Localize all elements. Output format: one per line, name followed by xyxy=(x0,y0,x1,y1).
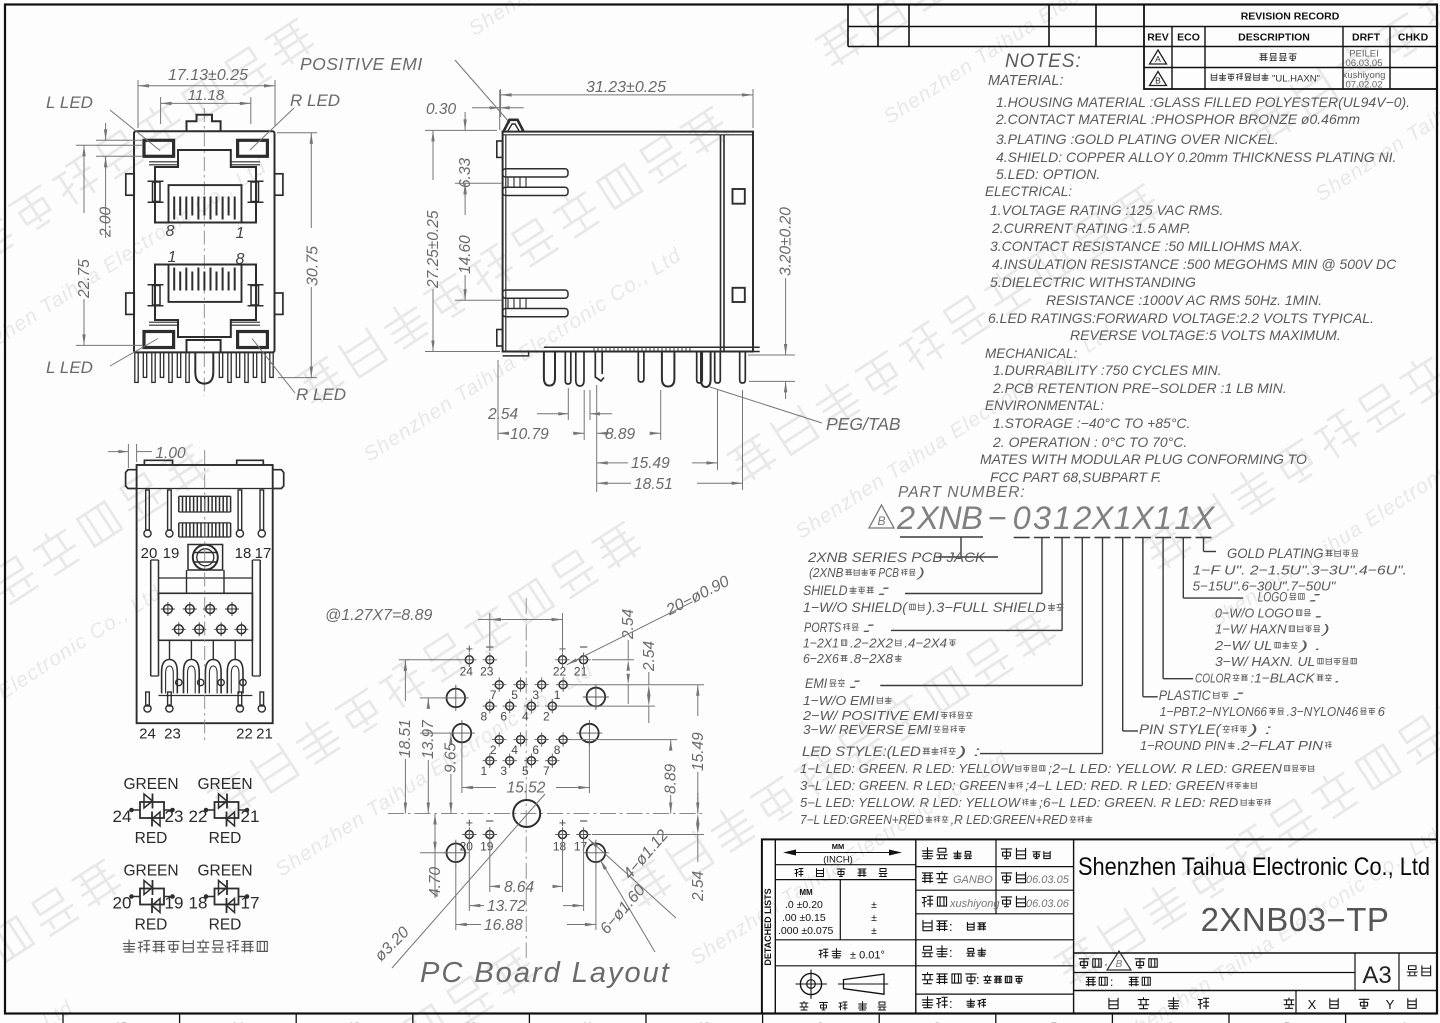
svg-text:PEG/TAB: PEG/TAB xyxy=(826,414,901,434)
svg-text:3−W/ HAXN. UL: 3−W/ HAXN. UL xyxy=(1215,654,1315,669)
svg-text::: : xyxy=(976,972,980,987)
svg-text:8: 8 xyxy=(480,710,487,724)
svg-text:2.54: 2.54 xyxy=(620,608,637,640)
dim 27.25±0.25 xyxy=(425,129,497,131)
svg-text:X: X xyxy=(1192,500,1216,536)
svg-text:DETACHED LISTS: DETACHED LISTS xyxy=(763,888,773,965)
svg-text:B: B xyxy=(1155,76,1161,86)
svg-text:REV: REV xyxy=(1147,32,1169,44)
svg-text:19: 19 xyxy=(165,894,184,913)
svg-text:3.CONTACT RESISTANCE :50 MI: 3.CONTACT RESISTANCE :50 MILLIOHMS MAX. xyxy=(990,238,1303,254)
svg-text:4.INSULATION RESISTANCE :500: 4.INSULATION RESISTANCE :500 MEGOHMS MIN… xyxy=(992,256,1397,272)
legs and pegs xyxy=(544,352,555,386)
svg-text:3: 3 xyxy=(1033,500,1051,536)
dim 8.89 side xyxy=(596,385,598,492)
R LED window top-right xyxy=(238,140,268,156)
svg-text:DRFT: DRFT xyxy=(1352,32,1381,44)
svg-text::: : xyxy=(949,996,953,1011)
svg-text:PIN STYLE(: PIN STYLE( xyxy=(1139,722,1222,737)
layout centerlines xyxy=(525,598,527,958)
svg-text:11.18: 11.18 xyxy=(188,87,225,104)
svg-text:N: N xyxy=(938,500,962,536)
svg-text:18: 18 xyxy=(189,894,208,913)
LED symbol left xyxy=(140,802,164,818)
svg-text:0.30: 0.30 xyxy=(426,101,457,118)
svg-text:4: 4 xyxy=(511,743,518,757)
svg-text::: : xyxy=(861,620,877,635)
svg-text:FCC PART 68,SUBPART F.: FCC PART 68,SUBPART F. xyxy=(990,469,1161,485)
svg-text:2. OPERATION : 0°C TO 70°: 2. OPERATION : 0°C TO 70°C. xyxy=(992,434,1187,450)
dim 8.64 xyxy=(489,841,491,892)
svg-text:21: 21 xyxy=(574,665,588,679)
svg-text:10.79: 10.79 xyxy=(510,426,549,443)
svg-text:ECO: ECO xyxy=(1177,32,1200,44)
bottom view top tabs xyxy=(144,460,172,465)
svg-text:Y: Y xyxy=(1386,997,1395,1012)
svg-text:15.49: 15.49 xyxy=(631,455,670,472)
chinese caption xyxy=(123,940,134,952)
svg-text:13.97: 13.97 xyxy=(420,719,437,759)
svg-text:2.CURRENT RATING :1.5 AMP.: 2.CURRENT RATING :1.5 AMP. xyxy=(991,220,1191,236)
upper port latch slots xyxy=(153,182,161,202)
svg-text:A3: A3 xyxy=(1362,962,1391,989)
svg-text:8.64: 8.64 xyxy=(504,879,535,896)
dim 18.51 side xyxy=(742,390,744,490)
8 round contacts xyxy=(164,605,173,614)
svg-text:9.65: 9.65 xyxy=(443,742,460,773)
svg-text:19: 19 xyxy=(163,545,180,562)
revision row B xyxy=(1150,72,1167,86)
svg-text:2XNB SERIES PCB JACK: 2XNB SERIES PCB JACK xyxy=(807,549,986,565)
svg-text:1.00: 1.00 xyxy=(155,445,186,462)
svg-text:.8−2X8: .8−2X8 xyxy=(850,651,894,666)
svg-text:1: 1 xyxy=(1154,500,1172,536)
mounting holes ø1.60 xyxy=(447,689,466,708)
svg-text:"UL.HAXN": "UL.HAXN" xyxy=(1272,74,1320,85)
svg-text:17.13±0.25: 17.13±0.25 xyxy=(168,67,248,84)
svg-text:X: X xyxy=(916,500,940,536)
svg-text:24: 24 xyxy=(113,807,132,826)
lower port contact block xyxy=(169,265,242,302)
dim 30.75 xyxy=(277,132,317,134)
svg-text:6.LED RATINGS:FORWARD VOLTAG: 6.LED RATINGS:FORWARD VOLTAGE:2.2 VOLTS … xyxy=(988,310,1374,326)
svg-text:1: 1 xyxy=(236,225,245,242)
dim 4.70 layout xyxy=(420,852,447,854)
svg-text:A: A xyxy=(1155,54,1161,64)
svg-text:;2−L LED: YELLOW. R LED: G: ;2−L LED: YELLOW. R LED: GREEN xyxy=(1048,762,1283,776)
svg-text::: : xyxy=(949,919,953,934)
front view bottom tab xyxy=(187,340,221,352)
svg-text:.4−2X4: .4−2X4 xyxy=(904,636,947,651)
svg-text:8.89: 8.89 xyxy=(663,763,680,794)
svg-text:17: 17 xyxy=(255,545,272,562)
svg-text:PC Board Layout: PC Board Layout xyxy=(420,957,671,989)
svg-text:PLASTIC: PLASTIC xyxy=(1159,688,1211,703)
svg-text:MATES WITH MODULAR PLUG CO: MATES WITH MODULAR PLUG CONFORMING TO xyxy=(980,451,1307,467)
svg-text:,R LED:GREEN+RED: ,R LED:GREEN+RED xyxy=(951,813,1068,827)
svg-text:6: 6 xyxy=(1378,704,1386,719)
svg-text:22: 22 xyxy=(189,807,208,826)
svg-text:5: 5 xyxy=(522,764,529,778)
svg-text::: : xyxy=(847,676,863,691)
svg-text:30.75: 30.75 xyxy=(305,246,322,286)
revision triangle B xyxy=(869,505,894,528)
svg-text:SHIELD: SHIELD xyxy=(803,583,848,598)
svg-text:16.88: 16.88 xyxy=(484,917,523,934)
svg-text:−: − xyxy=(988,500,1007,536)
svg-text:2.00: 2.00 xyxy=(98,206,115,238)
LED holes top: 24 23 22 21 xyxy=(465,656,473,664)
svg-text:1.VOLTAGE RATING :125 VAC: 1.VOLTAGE RATING :125 VAC RMS. xyxy=(990,202,1223,218)
dim 13.97 layout xyxy=(420,697,447,699)
shell side tabs xyxy=(126,174,134,195)
svg-text:2.CONTACT MATERIAL :PHOSPH: 2.CONTACT MATERIAL :PHOSPHOR BRONZE ø0.4… xyxy=(995,111,1360,127)
svg-text:6: 6 xyxy=(500,710,507,724)
svg-text:1−W/ HAXN: 1−W/ HAXN xyxy=(1215,622,1287,637)
svg-text:15.49: 15.49 xyxy=(690,732,707,771)
svg-text:31.23±0.25: 31.23±0.25 xyxy=(586,79,666,96)
svg-text:21: 21 xyxy=(241,807,260,826)
svg-text::1−BLACK: :1−BLACK xyxy=(1250,671,1316,686)
svg-text:5.DIELECTRIC WITHSTANDING: 5.DIELECTRIC WITHSTANDING xyxy=(990,274,1196,290)
leader 20-ø0.90 xyxy=(567,602,693,665)
svg-text:RESISTANCE :1000V AC RMS 50: RESISTANCE :1000V AC RMS 50Hz. 1MIN. xyxy=(1046,292,1322,308)
svg-text:RED: RED xyxy=(135,830,168,847)
L LED window top-left xyxy=(144,140,174,156)
center screw boss xyxy=(193,545,218,570)
svg-text:4.70: 4.70 xyxy=(427,866,444,897)
svg-text:1−ROUND PIN: 1−ROUND PIN xyxy=(1140,738,1226,753)
bottom view outline xyxy=(137,465,273,723)
svg-text:−: − xyxy=(579,813,588,830)
svg-text:1−L LED: GREEN. R LED: YELLO: 1−L LED: GREEN. R LED: YELLOW xyxy=(800,762,1014,776)
svg-text:MM: MM xyxy=(832,842,845,851)
svg-text:) .: ) . xyxy=(1296,638,1321,653)
bottom pins 24 23 22 21 xyxy=(146,692,150,706)
svg-text:ELECTRICAL:: ELECTRICAL: xyxy=(985,184,1072,199)
svg-text:23: 23 xyxy=(480,665,494,679)
dim 2.54 #3 xyxy=(592,834,704,836)
svg-text:3−L LED: GREEN. R LED: GREEN: 3−L LED: GREEN. R LED: GREEN xyxy=(800,779,1007,793)
svg-text:23: 23 xyxy=(164,726,181,743)
dim 6.33 xyxy=(455,182,502,184)
svg-text:18.51: 18.51 xyxy=(634,476,673,493)
lower contact arches xyxy=(162,660,178,694)
svg-text:RED: RED xyxy=(135,917,168,934)
svg-text:X: X xyxy=(1308,997,1317,1012)
svg-text:GREEN: GREEN xyxy=(197,863,252,880)
revision record table xyxy=(1144,5,1437,90)
svg-text:REVISION RECORD: REVISION RECORD xyxy=(1241,11,1340,23)
svg-text:24: 24 xyxy=(460,665,474,679)
svg-text:17: 17 xyxy=(241,894,260,913)
svg-text:07.02.02: 07.02.02 xyxy=(1346,80,1383,91)
side view back plate divider xyxy=(720,135,722,352)
svg-text:1−2X1: 1−2X1 xyxy=(803,636,839,651)
svg-text:) :: ) : xyxy=(954,744,980,759)
LED symbol left xyxy=(140,889,164,905)
svg-text:18: 18 xyxy=(235,545,252,562)
svg-text:22: 22 xyxy=(236,726,253,743)
svg-text:5−L LED: YELLOW. R LED: YELL: 5−L LED: YELLOW. R LED: YELLOW xyxy=(800,796,1021,810)
svg-text:CHKD: CHKD xyxy=(1398,32,1429,44)
middle label column xyxy=(1073,839,1075,1013)
svg-text:(INCH): (INCH) xyxy=(823,855,853,866)
bottom view centerline xyxy=(204,450,206,742)
svg-text:2.54: 2.54 xyxy=(487,406,519,423)
svg-text:;6−L LED: GREEN. R LED: RED: ;6−L LED: GREEN. R LED: RED xyxy=(1039,796,1238,810)
svg-text:GREEN: GREEN xyxy=(123,863,178,880)
svg-text:17: 17 xyxy=(574,840,588,854)
dim 3.20±0.20 xyxy=(748,354,795,356)
tolerance table xyxy=(915,839,917,1013)
svg-text:7: 7 xyxy=(543,764,550,778)
svg-text:2: 2 xyxy=(1072,500,1091,536)
svg-text:± 0.01°: ± 0.01° xyxy=(850,950,885,962)
revision row A xyxy=(1150,50,1167,64)
side rails xyxy=(151,560,261,676)
svg-text:18: 18 xyxy=(553,840,567,854)
middle contact housing xyxy=(159,593,253,640)
svg-text:B: B xyxy=(1116,959,1123,970)
svg-text:06.03.06: 06.03.06 xyxy=(1026,898,1070,910)
svg-text:L LED: L LED xyxy=(46,93,93,112)
svg-text:LOGO: LOGO xyxy=(1258,590,1288,605)
signal holes row 7 5 3 1 xyxy=(495,681,503,689)
LED symbol right xyxy=(215,889,239,905)
front view shell outline xyxy=(134,131,275,352)
svg-text:2XNB03−TP: 2XNB03−TP xyxy=(1201,901,1390,938)
svg-text:+: + xyxy=(466,815,474,830)
dim 10.79 xyxy=(497,360,499,440)
front view center leg xyxy=(195,352,213,383)
svg-text:24: 24 xyxy=(139,726,156,743)
svg-text:2.54: 2.54 xyxy=(641,640,658,672)
front view top tab xyxy=(187,115,221,132)
dim 18.51 layout xyxy=(399,659,462,661)
svg-text:20: 20 xyxy=(141,545,158,562)
dim 13.72 xyxy=(468,841,470,911)
svg-text:.00 ±0.15: .00 ±0.15 xyxy=(782,912,826,924)
svg-text:1.DURRABILITY :750 CYCLES M: 1.DURRABILITY :750 CYCLES MIN. xyxy=(993,362,1221,378)
svg-text:19: 19 xyxy=(480,840,494,854)
svg-text:1: 1 xyxy=(1114,500,1132,536)
bottom view corner ears xyxy=(126,470,137,489)
svg-text:4.SHIELD: COPPER ALLOY 0.20: 4.SHIELD: COPPER ALLOY 0.20mm THICKNESS … xyxy=(996,149,1396,165)
svg-text:COLOR: COLOR xyxy=(1195,671,1231,686)
svg-text:1−W/O EMI: 1−W/O EMI xyxy=(803,693,875,708)
svg-text:+: + xyxy=(466,641,474,656)
third angle projection symbol xyxy=(800,973,821,994)
svg-text:POSITIVE EMI: POSITIVE EMI xyxy=(300,54,423,74)
center hole ø3.20 xyxy=(513,800,540,827)
svg-text:1.HOUSING MATERIAL :GLASS F: 1.HOUSING MATERIAL :GLASS FILLED POLYEST… xyxy=(996,94,1410,110)
svg-text::: : xyxy=(876,583,892,598)
svg-text:GOLD PLATING: GOLD PLATING xyxy=(1227,546,1324,561)
svg-text:X: X xyxy=(1131,500,1155,536)
svg-text:18.51: 18.51 xyxy=(397,719,414,758)
svg-text:PCB: PCB xyxy=(878,566,899,580)
svg-text:7: 7 xyxy=(490,688,497,702)
svg-text:ENVIRONMENTAL:: ENVIRONMENTAL: xyxy=(985,398,1104,413)
svg-text:1: 1 xyxy=(1174,500,1192,536)
svg-text:0−W/O LOGO: 0−W/O LOGO xyxy=(1215,606,1294,621)
R LED window bottom-right xyxy=(238,332,268,348)
svg-text::: : xyxy=(949,945,953,960)
dim 15.49 layout xyxy=(634,684,704,686)
leader 4-ø1.12 xyxy=(589,839,677,918)
svg-text:@1.27X7=8.89: @1.27X7=8.89 xyxy=(325,607,433,624)
LED pins 20 19 18 17 xyxy=(146,490,150,530)
svg-text:MM: MM xyxy=(799,888,813,897)
svg-text:22.75: 22.75 xyxy=(76,259,93,299)
svg-text:PART NUMBER:: PART NUMBER: xyxy=(898,484,1026,501)
svg-text:±: ± xyxy=(871,899,877,911)
svg-text:B: B xyxy=(961,500,983,536)
svg-text:GREEN: GREEN xyxy=(197,776,252,793)
svg-text:R LED: R LED xyxy=(296,385,346,404)
dim 2.54 #1 xyxy=(592,659,634,661)
upper RJ45 port opening xyxy=(155,150,256,223)
svg-text:GANBO: GANBO xyxy=(953,874,993,886)
svg-text:GREEN: GREEN xyxy=(123,776,178,793)
svg-text:5: 5 xyxy=(511,688,518,702)
dim 8.89 layout xyxy=(570,739,677,741)
svg-text:20: 20 xyxy=(113,894,132,913)
signal holes row 8 6 4 2 xyxy=(486,702,494,710)
part number tree lines xyxy=(900,536,983,538)
svg-text:−: − xyxy=(485,813,494,830)
lower port latch slots xyxy=(153,286,161,306)
svg-text:0: 0 xyxy=(1013,500,1031,536)
svg-text:06.03.05: 06.03.05 xyxy=(1026,874,1070,886)
svg-text:2−W/ POSITIVE EMI: 2−W/ POSITIVE EMI xyxy=(802,708,939,723)
dim 15.49 side xyxy=(717,390,719,470)
pcb slot fingers upper xyxy=(503,169,568,177)
svg-text:RED: RED xyxy=(209,917,242,934)
svg-text:X: X xyxy=(1091,500,1115,536)
signal holes row 2 4 6 8 xyxy=(495,736,503,744)
front view centerline xyxy=(203,108,205,396)
svg-text:).3−FULL SHIELD: ).3−FULL SHIELD xyxy=(925,600,1046,615)
svg-text:1−F U". 2−1.5U".3−3U".4−6U".: 1−F U". 2−1.5U".3−3U".4−6U". xyxy=(1193,562,1408,577)
svg-text:3−W/ REVERSE EMI: 3−W/ REVERSE EMI xyxy=(803,722,932,737)
title block xyxy=(762,839,1437,1013)
lower right rows xyxy=(1074,952,1437,954)
svg-text:14.60: 14.60 xyxy=(457,235,474,274)
svg-text:6: 6 xyxy=(532,743,539,757)
upper port contact block xyxy=(169,185,242,222)
svg-text:3.PLATING :GOLD PLATING OVE: 3.PLATING :GOLD PLATING OVER NICKEL. xyxy=(996,131,1279,147)
svg-text:.000 ±0.075: .000 ±0.075 xyxy=(778,925,834,937)
bottom rail with serration xyxy=(503,352,529,356)
side view body xyxy=(503,132,753,352)
dim 2.54 #2 xyxy=(558,705,655,707)
svg-text::: : xyxy=(1231,688,1247,703)
svg-text:22: 22 xyxy=(553,665,567,679)
front view legs xyxy=(135,352,138,382)
L LED window bottom-left xyxy=(144,332,174,348)
upper comb rows xyxy=(179,496,231,512)
svg-text:3.20±0.20: 3.20±0.20 xyxy=(778,207,795,276)
top cut-off table xyxy=(847,5,849,47)
svg-text:.3−NYLON46: .3−NYLON46 xyxy=(1287,704,1359,719)
dim 2.00 xyxy=(96,139,142,141)
svg-text:3: 3 xyxy=(532,688,539,702)
positive EMI finger on top xyxy=(504,120,524,132)
svg-text:B: B xyxy=(877,514,885,528)
svg-text:1−PBT.2−NYLON66: 1−PBT.2−NYLON66 xyxy=(1160,704,1268,719)
svg-text:1: 1 xyxy=(1053,500,1071,536)
peg/tab square holes xyxy=(733,189,745,204)
svg-text:8: 8 xyxy=(166,223,175,240)
svg-text:DESCRIPTION: DESCRIPTION xyxy=(1238,32,1310,44)
svg-text:.2−2X2: .2−2X2 xyxy=(850,636,894,651)
svg-text:7−L LED:GREEN+RED: 7−L LED:GREEN+RED xyxy=(800,813,924,827)
svg-text:15.52: 15.52 xyxy=(507,780,546,797)
dim 16.88 xyxy=(455,864,457,930)
svg-text:2.54: 2.54 xyxy=(690,870,707,902)
svg-text:;4−L LED: RED. R LED: GREEN: ;4−L LED: RED. R LED: GREEN xyxy=(1025,779,1225,793)
svg-text:.: . xyxy=(1313,606,1327,621)
svg-text:EMI: EMI xyxy=(805,676,827,691)
svg-text:13.72: 13.72 xyxy=(487,898,526,915)
svg-text:.: . xyxy=(1334,671,1341,686)
svg-text::: : xyxy=(1110,975,1113,989)
svg-text:27.25±0.25: 27.25±0.25 xyxy=(425,210,442,289)
LED symbol right xyxy=(215,802,239,818)
svg-text:±: ± xyxy=(871,912,877,924)
svg-text:8: 8 xyxy=(236,251,245,268)
lower port contact comb xyxy=(174,268,235,291)
svg-text:06.03.05: 06.03.05 xyxy=(1346,58,1383,69)
svg-text:PORTS: PORTS xyxy=(804,620,841,635)
svg-text:MATERIAL:: MATERIAL: xyxy=(988,73,1063,89)
svg-text:8: 8 xyxy=(554,743,561,757)
svg-text::: : xyxy=(1308,590,1324,605)
svg-text:3: 3 xyxy=(500,764,507,778)
svg-text:23: 23 xyxy=(165,807,184,826)
svg-text:NOTES:: NOTES: xyxy=(1005,51,1082,72)
svg-text:1: 1 xyxy=(168,249,177,266)
svg-text:1.STORAGE :−40°C TO +: 1.STORAGE :−40°C TO +85°C. xyxy=(993,415,1190,431)
leader ø3.20 xyxy=(392,794,545,968)
svg-text:±: ± xyxy=(871,925,877,937)
pcb slot fingers lower xyxy=(503,290,568,298)
svg-text:−: − xyxy=(579,639,588,656)
upper port contact comb xyxy=(174,197,235,220)
svg-text:REVERSE VOLTAGE:5 VOLTS M: REVERSE VOLTAGE:5 VOLTS MAXIMUM. xyxy=(1070,327,1341,343)
leader 6-ø1.60 xyxy=(600,860,655,953)
svg-text:2−W/ UL: 2−W/ UL xyxy=(1214,638,1272,653)
svg-text:(2XNB: (2XNB xyxy=(809,566,843,580)
svg-text:2: 2 xyxy=(490,743,497,757)
dim 9.65 layout xyxy=(420,732,453,734)
svg-text:+: + xyxy=(559,815,567,830)
svg-text:L LED: L LED xyxy=(46,358,93,377)
detached lists cell xyxy=(774,839,776,1013)
dim 14.60 xyxy=(455,299,502,301)
svg-text:21: 21 xyxy=(256,726,273,743)
lower RJ45 port opening xyxy=(155,265,256,338)
svg-text:5.LED: OPTION.: 5.LED: OPTION. xyxy=(996,166,1100,182)
dim 22.75 xyxy=(76,144,142,146)
svg-text:LED STYLE:(LED: LED STYLE:(LED xyxy=(802,744,921,759)
svg-text:RED: RED xyxy=(209,830,242,847)
svg-text:.0 ±0.20: .0 ±0.20 xyxy=(785,899,823,911)
svg-text:2: 2 xyxy=(896,500,915,536)
svg-text:) :: ) : xyxy=(1246,722,1272,737)
